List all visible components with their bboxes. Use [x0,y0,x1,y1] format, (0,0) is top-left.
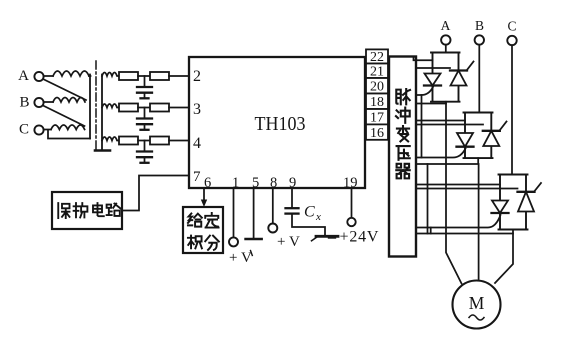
wire terminal A stub [445,45,447,53]
primary winding C [51,125,85,130]
label Cx [304,204,321,224]
wire row1 mid [138,75,150,77]
pin label 7 [193,169,201,185]
svg-text:16: 16 [370,126,384,141]
primary winding B [53,98,85,103]
svg-text:B: B [19,95,29,111]
svg-text:x: x [315,211,321,223]
wire pair C bottom [416,230,513,234]
svg-text:C: C [507,19,516,34]
wire row3 mid [138,140,150,142]
wire pair A bottom [416,102,446,104]
IC U1 value label TH103 [255,113,306,135]
terminal B (top) [475,35,484,44]
capacitor row2 [137,108,152,130]
thyristor V4 (up) [483,131,500,146]
phase A bus down [446,104,462,284]
secondary winding row3 [102,137,119,141]
svg-text:20: 20 [370,80,384,95]
secondary winding row1 [102,73,119,77]
terminal pin1 +V' [229,237,238,246]
svg-text:B: B [475,18,484,33]
wire pin6 to integrator (arrow) [201,188,207,207]
wire pin9 down [291,188,293,207]
secondary bus ground bar [95,149,110,152]
gate stub V6 [534,183,541,192]
secondary winding row2 [102,104,119,108]
node C label (top) [507,19,516,34]
protection circuit label 保护电路 [58,203,120,218]
riser wire gateA-gateB [421,95,423,158]
thyristor V6 (up) [518,192,535,212]
pin box 21 [366,64,388,80]
gate wire V5 [416,215,501,228]
wire winding A to bus [89,75,91,77]
node B label (top) [475,18,484,33]
node C label (left) [19,122,29,138]
resistor row3 b [150,137,169,145]
phase C bus down [495,234,513,284]
pin box 22 [366,49,388,65]
riser wire B-C [427,164,429,234]
motor tilde [469,315,484,320]
resistor row1 a [119,72,138,80]
gate wire V1 [416,87,433,95]
pin label 5 [252,175,259,191]
chassis ground [312,236,339,241]
prime tick [251,251,253,256]
wire pin5 down [253,188,255,238]
svg-text:A: A [18,68,29,84]
resistor row2 a [119,104,138,112]
thyristor V5 (down) [492,201,509,214]
pin box 20 [366,78,388,95]
gate wire V3 [416,149,466,158]
thyristor pair B frame [464,113,493,159]
pin label 9 [289,175,296,191]
label +24V [340,229,380,246]
node A label (top) [441,18,451,33]
label +V [277,234,300,250]
thyristor V1 (down) [424,74,441,86]
terminal A [34,72,43,81]
pin label 8 [270,175,277,191]
resistor row1 b [150,72,169,80]
svg-text:A: A [441,18,451,33]
svg-text:4: 4 [193,135,201,152]
pin box 16 [366,124,388,141]
svg-text:+ V: + V [277,234,300,250]
node B label (left) [19,95,29,111]
motor label M [469,293,485,313]
svg-text:2: 2 [193,68,201,85]
terminal A (top) [441,35,450,44]
svg-text:+24V: +24V [340,229,380,246]
IC U1 TH103 body [189,57,365,188]
wire terminal B bus [478,45,480,113]
terminal pin19 +24V [347,218,355,226]
thyristor pair A frame [431,53,460,102]
svg-text:C: C [304,204,315,221]
capacitor row1 [137,76,152,98]
wire gateC to bottom link [430,228,432,234]
svg-text:6: 6 [204,175,211,191]
svg-text:17: 17 [370,111,384,126]
wire block to pair B top [416,120,465,122]
pin label 2 [193,68,201,85]
transformer core (dashed) [95,61,97,151]
wire protection box to pin7 [122,176,189,211]
wire pin19 down [351,188,353,218]
pin box 17 [366,109,388,126]
wire terminal C bus [511,45,513,174]
wire block to pair A top [414,58,433,61]
phase B bus down [478,164,480,279]
svg-text:19: 19 [343,175,358,191]
wire diagonal A-B [44,80,86,101]
wire block to pair B cathode [416,124,483,126]
terminal pin8 +V [268,224,277,233]
wire row2 to pin3 [169,107,189,109]
wire pin8 down [272,188,274,223]
svg-text:+ V: + V [229,250,252,266]
capacitor row3 [137,141,152,163]
wire Cx to ground [292,214,325,235]
wire row2 mid [138,107,150,109]
primary winding A [53,71,89,76]
svg-text:M: M [469,293,485,313]
wire row3 to pin4 [169,140,189,142]
wire pin1 down [233,188,235,237]
pin label 1 [232,175,239,191]
wire pair B bottom [416,158,478,164]
terminal B [34,98,43,107]
wire block to pair A cathode [416,67,450,69]
pulse transformer label 脉冲变压器 [396,89,410,178]
pin label 3 [193,101,201,118]
wire block to pair C cathode [416,188,518,190]
pin box 18 [366,94,388,111]
capacitor Cx [286,208,299,213]
gate stub V4 [499,122,506,131]
given-integral label 给定 积分 [188,213,219,250]
pin label 4 [193,135,201,152]
primary bus wire [89,75,91,139]
pin label 19 [343,175,358,191]
wire C bottom return [48,130,90,139]
thyristor pair C frame [499,175,528,230]
pulse transformer block [389,57,416,257]
svg-text:18: 18 [370,95,384,110]
gate stub V2 [467,62,474,71]
svg-text:7: 7 [193,169,201,185]
wire A to winding [44,75,53,77]
label +V' [229,250,252,266]
wire row1 to pin2 [169,75,189,77]
svg-text:3: 3 [193,101,201,118]
thyristor V2 (up) [450,71,467,86]
motor M [453,281,501,329]
svg-text:TH103: TH103 [255,113,306,135]
terminal C (top) [507,36,516,45]
wire diagonal B-C [44,106,85,126]
node A label (left) [18,68,29,84]
svg-text:C: C [19,122,29,138]
terminal C [34,125,43,134]
secondary bus wire [101,75,103,150]
wire B to winding [44,101,53,103]
wire block to pair C top [416,184,500,186]
wire C to winding [44,129,51,131]
thyristor V3 (down) [457,133,474,147]
protection circuit box [52,192,122,229]
pin label 6 [204,175,211,191]
resistor row2 b [150,104,169,112]
common bar pin5 [246,238,262,241]
resistor row3 a [119,137,138,145]
given-integral box 给定积分 [183,207,223,253]
dash mark [329,236,335,238]
